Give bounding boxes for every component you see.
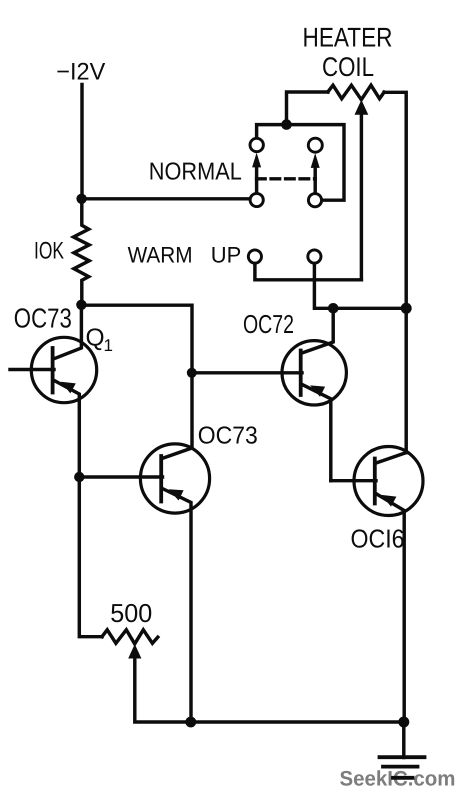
svg-text:UP: UP bbox=[211, 243, 242, 268]
svg-text:NORMAL: NORMAL bbox=[149, 158, 242, 185]
svg-text:OCI6: OCI6 bbox=[351, 523, 405, 553]
svg-text:OC72: OC72 bbox=[243, 309, 294, 339]
svg-text:HEATER: HEATER bbox=[303, 23, 393, 53]
svg-text:WARM: WARM bbox=[128, 243, 193, 268]
svg-text:−I2V: −I2V bbox=[56, 59, 105, 86]
svg-text:Q: Q bbox=[86, 325, 105, 352]
svg-text:IOK: IOK bbox=[34, 238, 64, 265]
svg-text:OC73: OC73 bbox=[198, 423, 258, 450]
svg-text:COIL: COIL bbox=[322, 52, 374, 82]
svg-text:500: 500 bbox=[110, 598, 152, 628]
svg-text:1: 1 bbox=[104, 336, 113, 355]
svg-text:OC73: OC73 bbox=[14, 303, 72, 334]
